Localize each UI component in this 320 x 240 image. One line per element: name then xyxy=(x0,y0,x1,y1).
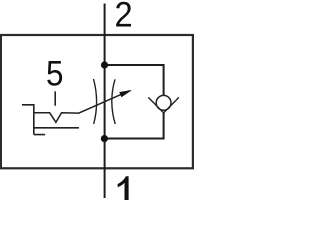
junction node upper xyxy=(101,61,108,68)
svg-text:2: 2 xyxy=(114,0,132,35)
adjustment arrowhead xyxy=(119,90,132,97)
svg-text:5: 5 xyxy=(46,55,63,94)
pointer line from label 5 xyxy=(54,91,56,105)
throttle restrictor right arc xyxy=(112,79,115,124)
label 5 actuator xyxy=(46,55,63,94)
lever detent notch and adjustment arrow shaft xyxy=(34,91,130,123)
wire: lower branch from check valve xyxy=(105,113,164,139)
throttle restrictor left arc xyxy=(94,79,97,124)
lever actuator body xyxy=(22,105,79,135)
check valve ball xyxy=(156,95,171,110)
wire: upper branch to check valve xyxy=(105,65,164,96)
label port 2 xyxy=(114,0,132,35)
label port 1 xyxy=(118,176,129,200)
junction node lower xyxy=(101,135,108,142)
component enclosure box xyxy=(1,35,193,168)
check valve seat xyxy=(148,97,179,113)
wire: main flow line port 2 to port 1 xyxy=(104,4,106,199)
